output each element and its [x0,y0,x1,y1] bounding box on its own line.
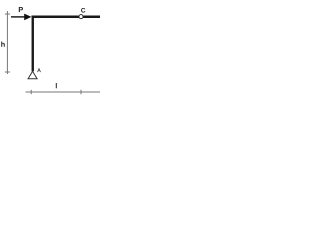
label A [37,68,41,72]
label h [1,41,5,46]
pin support A (triangle) [28,71,37,79]
label C [81,8,85,13]
dimension line h (vertical, left) [5,11,10,74]
dimension line l (horizontal, bottom) [26,90,101,94]
label l [56,83,57,88]
beam BC (top horizontal member) [32,16,101,18]
column AB (vertical member) [32,16,34,72]
force arrow P [11,14,31,21]
label P [19,7,23,12]
hinge C (circle) [79,15,83,19]
